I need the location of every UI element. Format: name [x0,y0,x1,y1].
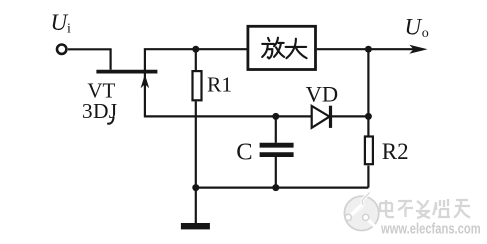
svg-text:www.elecfans.com: www.elecfans.com [380,220,481,237]
wire C bottom lead [275,157,277,188]
transistor source arrow [141,74,150,88]
output rail from amp box [317,48,422,50]
diode VD [312,106,330,128]
wire input to gate [68,49,111,70]
ground [181,223,210,229]
node C top [272,113,279,120]
svg-text:U: U [405,14,423,39]
node bottom left [192,184,199,191]
input terminal circle [57,45,66,54]
transistor VT channel bar [96,70,157,74]
watermark chinese text 电子发烧友 [380,199,470,218]
wire R1 bottom lead [195,101,197,187]
wire ground stem [195,188,197,224]
label 放大 (drawn strokes) [262,38,306,59]
watermark logo elecfans [344,193,378,231]
transistor drain wire + top rail to amp box [145,49,247,73]
amplifier box U1 [248,26,316,69]
bottom rail [196,187,369,189]
resistor R2 [365,137,373,165]
wire output junction down to R2 [367,49,369,136]
wire R1 top lead [195,49,197,71]
output arrow [409,45,427,54]
wire C top lead [275,116,277,142]
svg-text:C: C [236,139,252,166]
svg-text:U: U [51,10,69,35]
transistor source wire + mid rail [145,73,369,116]
node output junction [365,46,372,53]
resistor R1 [193,71,202,100]
svg-text:o: o [422,26,429,41]
node top of R1 [192,46,199,53]
wire R2 bottom lead [367,166,369,188]
svg-text:i: i [67,22,71,37]
svg-text:3DJ: 3DJ [82,99,118,123]
node C bottom [272,184,279,191]
svg-text:VD: VD [306,82,339,107]
node diode cathode junction [365,113,372,120]
svg-text:R1: R1 [207,72,232,96]
capacitor C plates [260,143,294,148]
svg-text:R2: R2 [382,139,409,164]
